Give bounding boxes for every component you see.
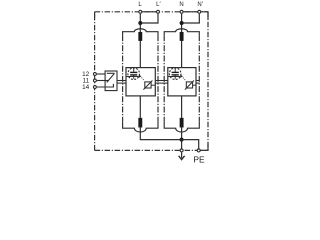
- svg-text:N: N: [179, 2, 183, 8]
- wire module 2 bottom to bus: [181, 96, 183, 118]
- terminal circle L: [139, 10, 142, 13]
- spark gap F1 (module 1): [126, 68, 144, 81]
- plug-in contact blade bottom module 1: [138, 118, 142, 128]
- wire module 1 bottom to bus: [139, 96, 141, 118]
- terminal circle PE: [197, 149, 200, 152]
- base part top rail with plug bump (right module): [164, 29, 199, 35]
- svg-text:PE: PE: [193, 154, 205, 164]
- terminal circle 11: [93, 79, 96, 82]
- base part top rail with plug bump (left module): [123, 29, 158, 35]
- node bus junction: [180, 138, 184, 142]
- terminal circle 12: [93, 73, 96, 76]
- wire terminal 14 to bent fixed contact: [97, 84, 114, 87]
- inner dash-dot module boundary (right module) vertical sides: [164, 35, 199, 121]
- mechanical link double lines relay-module1: [117, 81, 126, 84]
- svg-text:N′: N′: [197, 2, 203, 8]
- terminal circle 14: [93, 86, 96, 89]
- terminal circle L': [157, 10, 160, 13]
- relay fixed contact bar 12: [107, 72, 115, 74]
- node junction N/N': [180, 21, 184, 25]
- terminal circle N': [198, 10, 201, 13]
- changeover contact blade: [107, 73, 115, 82]
- wire L down to module 1: [139, 14, 141, 33]
- wire junction to PE terminal: [182, 140, 199, 149]
- base part bottom rail with socket cup (right module): [164, 121, 199, 132]
- terminal circle earth: [180, 149, 183, 152]
- svg-text:14: 14: [82, 84, 90, 91]
- mechanical link double lines module1-module2: [155, 81, 168, 84]
- plug-in contact blade top module 2: [180, 32, 184, 41]
- wire N' down and to junction: [182, 14, 200, 23]
- spark gap F2 (module 2): [168, 68, 186, 81]
- wire L' down and to junction: [140, 14, 158, 23]
- solid border segments joining terminal pairs L-L' and N-N': [95, 12, 208, 151]
- plug-in contact blade top module 1: [138, 32, 142, 41]
- inner dash-dot module boundary (left module) vertical sides: [123, 35, 158, 121]
- module 1 box: [126, 68, 155, 96]
- wire junction down to earth terminal: [181, 140, 183, 149]
- plug-in contact blade bottom module 2: [180, 118, 184, 128]
- outer dash-dot enclosure border: [95, 12, 208, 151]
- trigger unit square (module 1): [143, 81, 155, 90]
- wire terminal 12 to fixed contact: [97, 73, 105, 75]
- base part bottom rail with socket cup (left module): [123, 121, 158, 132]
- wire N down to module 2: [181, 14, 183, 33]
- trigger unit square (module 2): [185, 81, 196, 90]
- ground arrow: [181, 152, 183, 158]
- mechanical link double lines module2-right boundary: [196, 81, 200, 84]
- wire terminal 11 common pole: [97, 80, 109, 82]
- remote signalling contact box K1: [105, 71, 117, 91]
- node junction L/L': [138, 21, 142, 25]
- terminal circle N: [180, 10, 183, 13]
- module 2 box: [168, 68, 196, 96]
